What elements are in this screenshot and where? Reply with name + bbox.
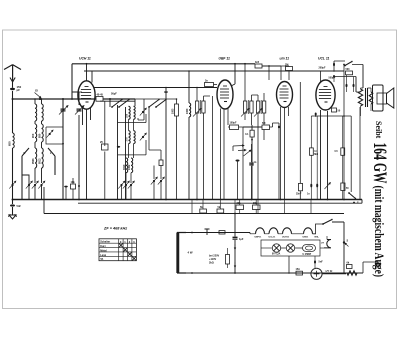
resistor osc feed [159,160,163,166]
resistor 6k bleeder [347,265,353,269]
trimmer oscillator T1 [142,111,144,113]
capacitor 10k pad [71,184,76,189]
capacitor J2 blob [353,84,355,87]
capacitor 5nF AF coupling [236,160,240,162]
resistor 0.1M screen dropper [310,148,314,155]
svg-text:1000: 1000 [186,108,189,114]
wire oscillator bus node [109,98,111,100]
coil 100 oscillator [129,106,131,119]
resistor 1003 decoupling [175,104,179,116]
resistor 40-45 padder [96,97,103,102]
wire UCH11 cathode pins [83,108,91,200]
wire coil feeds [35,99,42,104]
resistor 50 screen [332,108,337,112]
ground GND1 [12,212,14,215]
wire AVC node [242,127,244,200]
resistor 5k dropper 1 [200,209,207,213]
svg-text:UBF 11: UBF 11 [219,57,231,61]
wire right drops [300,65,360,200]
ground GND2 [377,262,379,264]
svg-text:5nF: 5nF [17,205,22,208]
trimmer bias [325,183,331,190]
coil L2 antenna primary 2 [42,104,44,121]
connector T plug [205,229,210,235]
wire bleeder to ground [357,262,378,273]
svg-text:UM11: UM11 [303,237,309,239]
svg-text:40-45: 40-45 [97,94,104,97]
lamp E2 dial [286,244,294,252]
coil 0506 band coil [35,148,37,168]
lamp E1 dial [272,244,280,252]
wire bus interconnects [192,200,311,214]
capacitor bias blob 1 [310,184,312,188]
switch band selector right blade [48,148,55,175]
heater UCH11 [278,233,283,235]
capacitor 5nF screen blob [164,91,168,93]
svg-text:1µF: 1µF [239,238,244,241]
wire osc drops [110,99,135,107]
resistor 500 tone [346,71,353,75]
IF transformer T2 primary [244,101,247,113]
trimmer oscillator T2 [142,136,144,138]
capacitor 1uF smoothing [234,214,236,274]
wire lamp row [261,247,272,249]
svg-text:30k: 30k [253,202,258,205]
loop sub-circuit box with trimmer [46,127,63,144]
capacitor bias blob 2 [316,184,318,188]
svg-text:NSL: NSL [315,237,320,239]
wire coil column joins [35,121,42,148]
coil 650 antenna choke [13,133,15,148]
svg-text:8V 0,2A: 8V 0,2A [272,253,281,256]
svg-text:5M: 5M [262,122,265,125]
resistor heater series [219,231,225,234]
wire branch x63 [62,99,64,200]
svg-text:ZF = 468 kHz: ZF = 468 kHz [103,227,127,231]
wire oscillator verticals [118,105,126,200]
svg-text:200pF: 200pF [319,67,326,70]
speaker LS1 cone [387,88,394,108]
tube UCH11 U1 [78,81,95,109]
svg-text:650: 650 [8,141,12,146]
svg-text:1003: 1003 [171,108,174,114]
svg-text:50pF: 50pF [111,93,117,96]
wire node x135-176 [135,98,177,100]
wire bottom power bus [186,272,363,274]
wire screen node line [311,115,351,117]
wire rectifier out [322,273,346,275]
coil 850 band coil [42,124,44,142]
switch oscillator blade 1 [111,106,113,108]
svg-text:3n5: 3n5 [255,61,260,64]
svg-text:U 25B/P: U 25B/P [303,254,312,256]
svg-text:4 W: 4 W [188,251,193,255]
trimmer IF T3 [254,109,262,117]
svg-text:2kΩ: 2kΩ [209,262,214,265]
IF transformer T1 primary [196,101,199,113]
svg-text:0506: 0506 [32,158,35,164]
svg-text:Gl: Gl [35,89,38,93]
fuse Si blob [343,241,345,243]
switch tone [344,65,346,67]
coil 900 band coil [35,124,37,142]
wire lamp box to mains bus [288,256,290,273]
svg-text:900: 900 [31,133,35,138]
svg-text:100: 100 [125,113,128,118]
tuning capacitor C1 variable gang [61,109,66,111]
trimmer capacitor antenna pad 3 [34,184,36,186]
resistor 2M magic eye grid [286,67,293,71]
svg-text:25nF: 25nF [296,194,302,196]
capacitor 50nF rect [341,183,345,191]
dial lamp box [261,240,320,256]
wire trimmer to bus [12,186,14,200]
heater UM11 [292,233,304,235]
wire transformer bottoms [356,92,361,116]
heater UY11 hook [320,247,324,249]
switch Gl wave-switch contact [39,98,41,100]
resistor 5M diode [262,125,270,130]
resistor 15A surge [296,271,303,275]
capacitor detector blob [278,125,280,128]
svg-text:K: K [24,151,26,155]
speaker LS1 frame [373,85,384,111]
capacitor osc pad blob [117,146,120,148]
tube UCL11 U4 [316,80,335,110]
wire heater top [186,233,250,234]
resistor 30k dropper 2 [253,205,261,210]
switch oscillator blade 3 [148,106,150,108]
resistor 25 osc [102,144,109,150]
wire antenna down-lead [12,99,14,200]
svg-text:0512: 0512 [38,158,41,164]
wire to magic eye [262,65,281,67]
wire B+ bus [44,187,344,214]
trimmer capacitor antenna pad 1 [11,184,13,186]
transformer output core [366,88,368,107]
svg-text:15A: 15A [296,268,301,271]
svg-text:Mittel: Mittel [100,249,107,252]
coil 0370 oscillator tank [129,131,131,144]
coil 30108 oscillator tap [126,158,128,173]
wire second bus [78,200,362,204]
svg-text:UY 11: UY 11 [326,269,334,273]
wire UCH11 grid line [94,87,217,89]
svg-text:UBF11: UBF11 [255,237,263,239]
coil 470 oscillator [134,106,136,119]
IF transformer T2 secondary [250,101,253,113]
speaker LS1 magnet [377,93,387,104]
svg-text:UCH11: UCH11 [282,237,290,239]
svg-text:Seibt: Seibt [374,121,383,138]
svg-text:MΩ: MΩ [314,154,318,156]
wire oscillator ties [118,114,147,155]
svg-text:pF: pF [17,88,21,92]
wire UM11 pins [281,107,289,200]
wire output node bus [334,76,356,78]
wire osc grid coupling [138,99,144,120]
lamp E3 scale [303,245,316,252]
wire chassis ground bus [13,199,363,201]
svg-text:UCL11: UCL11 [269,237,277,239]
svg-text:UCH 11: UCH 11 [79,57,91,61]
coil 0910 oscillator tank [134,131,136,144]
svg-text:2n: 2n [205,80,208,83]
resistor 0.7M diode load [230,125,239,130]
wire heater chain step [313,224,324,234]
capacitor 1nF [249,163,254,165]
tuning capacitor C2 oscillator gang [78,92,80,200]
arrow current direction 1 [234,244,236,250]
wire band switch drops [35,168,42,183]
svg-text:3010: 3010 [123,164,126,170]
svg-text:30k: 30k [237,202,242,205]
svg-text:(mit magischem Auge): (mit magischem Auge) [372,186,386,278]
resistor 2n grid stopper [205,83,214,87]
wire UBF11 anode top [231,64,235,86]
IF transformer T3 secondary [257,101,260,113]
resistor 25nF bias rect [299,183,303,190]
trimmer IF T2 [241,109,249,117]
switch detector blade 2 [238,149,246,151]
wire IF T3 leads [252,93,265,200]
wire UCL11 pin drops [321,110,328,200]
svg-text:1002: 1002 [128,164,131,170]
trimmer capacitor antenna pad 4 [40,184,42,186]
trimmer capacitor osc pad 3 [130,184,132,186]
svg-text:TA: TA [100,258,103,261]
switch pickup blade [348,192,350,194]
coil 10028 oscillator tap [131,158,133,173]
svg-text:Kurz: Kurz [100,245,106,248]
switch oscillator blade 2 [118,106,120,108]
resistor 3n5 coupling [255,64,262,68]
volume pot arrow [244,150,252,156]
wire antenna lead to bus [12,91,14,99]
trimmer capacitor osc pad 1 [120,184,122,186]
svg-text:Schalter: Schalter [100,241,110,244]
capacitor grid blob [64,186,68,188]
svg-text:500: 500 [346,68,351,71]
antenna A1 [4,65,21,82]
wire UCH11 top leads [72,64,92,92]
svg-text:100pF: 100pF [230,122,237,125]
capacitor 5nF ground blob [10,204,15,206]
capacitor J blob on screen line [315,113,317,116]
trimmer IF T1 [193,109,201,117]
wire speaker returns [368,88,372,111]
wire UBF11 pins down [221,109,229,200]
svg-text:Lang: Lang [100,254,106,257]
wire main antenna bus [13,98,136,100]
switch band selector left blade [22,148,29,200]
switch oscillator blade 4 [155,106,157,108]
heater UBF11 [250,233,256,235]
capacitor J1 blob [346,84,348,87]
wire IF T2 leads [245,64,252,125]
resistor 5k dropper 2 [217,209,224,213]
wire osc mid verticals [126,119,134,183]
svg-text:um 11: um 11 [280,57,290,61]
wire top bus 1 [72,63,255,65]
svg-text:5nF: 5nF [319,261,324,264]
coil 0512 band coil [42,148,44,168]
resistor 0.5M grid leak [341,148,345,155]
tube UM11 U3 magic eye [277,82,293,108]
trimmer capacitor antenna pad 2 [28,184,30,186]
svg-text:850: 850 [37,133,41,138]
wire speaker feed [356,65,363,93]
wire top bus 2 [84,70,344,72]
resistor mains dropper [226,255,230,265]
svg-text:164 GW: 164 GW [369,143,389,184]
arrow current direction 2 [234,262,236,268]
resistor 0.1M volume [250,130,254,137]
svg-text:370: 370 [125,137,128,142]
wire IF T1 leads [197,88,210,200]
resistor field coil [358,89,362,106]
tube UBF11 U2 [217,80,233,109]
trimmer capacitor osc series A [153,180,155,182]
svg-text:UY: UY [321,243,325,245]
resistance line cord R-bar [176,233,179,274]
resistor 30k dropper 1 [236,205,244,210]
capacitor 5nF mains [314,260,316,263]
tube UY11 U5 rectifier [311,268,322,279]
switch detector blade 1 [233,145,244,147]
coil L1 antenna primary [35,104,37,121]
switch mains S1 [322,223,324,225]
coil 1000 HF choke [189,103,191,117]
trimmer capacitor osc pad 2 [125,184,127,186]
wire IF T1 secondary return [212,96,214,200]
capacitor 150pF antenna series [12,82,14,88]
svg-text:UCL 11: UCL 11 [318,57,329,61]
table wave band switch [99,239,136,261]
trimmer capacitor osc series B [160,180,162,182]
wire left drop from top bus [71,64,73,99]
heater UCL11 [265,233,270,235]
transformer secondary winding [369,92,373,104]
IF transformer T1 secondary [202,101,205,113]
